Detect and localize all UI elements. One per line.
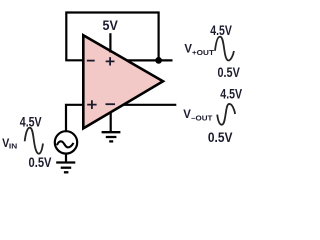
wire from source VIN to non-inverting input	[66, 105, 83, 132]
wire V+OUT output line	[126, 59, 173, 61]
negative supply wire to ground	[110, 112, 112, 133]
wire feedback loop from output node to inverting input	[66, 13, 158, 61]
svg-text:IN: IN	[9, 142, 17, 151]
svg-text:0.5V: 0.5V	[208, 130, 233, 145]
op-amp U1 triangle	[83, 35, 163, 128]
svg-text:5V: 5V	[103, 18, 118, 33]
op-amp non-inverting input plus sign	[87, 100, 96, 109]
sine symbol inside source	[57, 141, 73, 147]
source VG1 AC sine source circle	[55, 131, 77, 153]
svg-text:0.5V: 0.5V	[218, 65, 240, 80]
svg-text:+OUT: +OUT	[192, 48, 214, 57]
op-amp positive supply plus sign	[106, 57, 115, 65]
op-amp negative supply minus sign	[106, 103, 116, 105]
5V supply wire	[109, 33, 111, 52]
svg-text:4.5V: 4.5V	[210, 23, 232, 38]
V-OUT sine waveform glyph	[217, 104, 235, 125]
wire source to ground	[65, 153, 67, 162]
VIN sine waveform glyph	[25, 128, 43, 154]
svg-text:0.5V: 0.5V	[29, 155, 52, 170]
op-amp inverting input minus sign	[87, 60, 95, 62]
svg-text:4.5V: 4.5V	[220, 87, 242, 102]
V+OUT sine waveform glyph	[215, 37, 234, 61]
ground (source)	[56, 163, 75, 173]
wire V-OUT output line	[120, 104, 176, 106]
node junction dot	[155, 57, 162, 64]
ground (op-amp)	[102, 132, 121, 141]
svg-text:–OUT: –OUT	[191, 114, 213, 123]
